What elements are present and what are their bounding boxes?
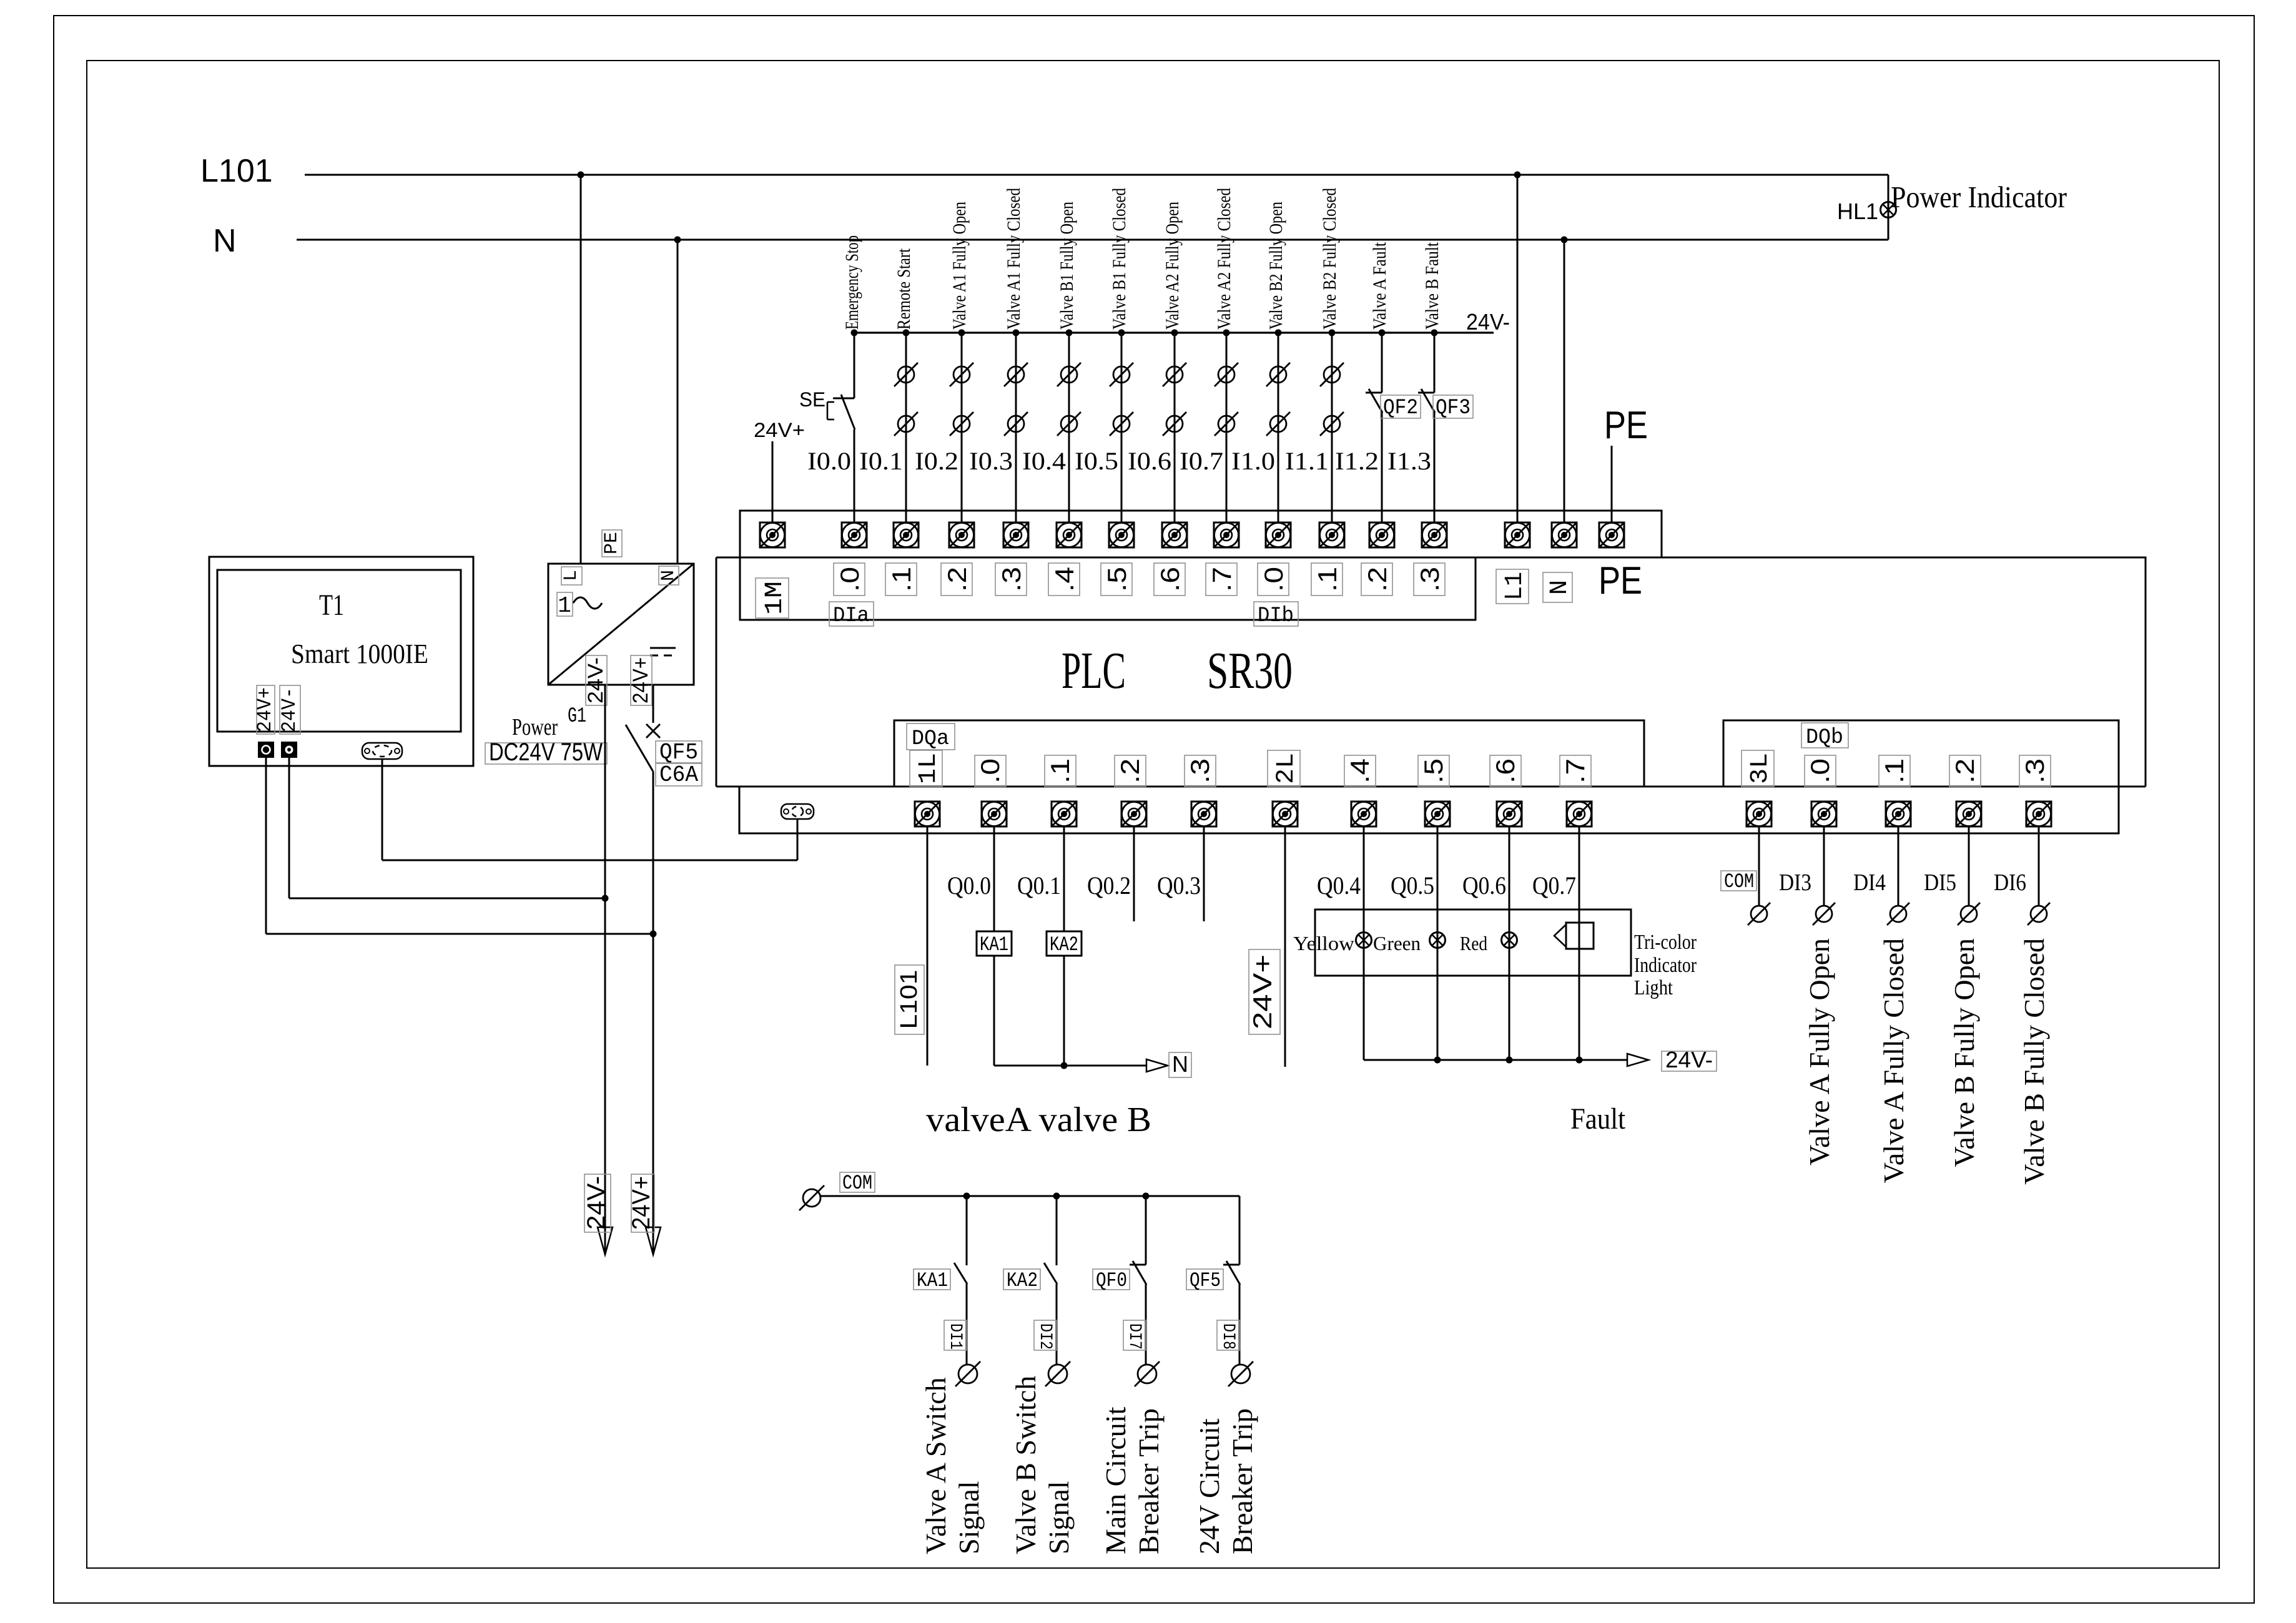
svg-text:I0.2: I0.2: [915, 447, 958, 475]
svg-text:Main Circuit: Main Circuit: [1100, 1406, 1131, 1554]
svg-text:DQb: DQb: [1806, 726, 1843, 750]
svg-text:PLC: PLC: [1062, 642, 1126, 700]
svg-text:SR30: SR30: [1207, 642, 1293, 700]
svg-text:SE: SE: [799, 388, 825, 411]
svg-text:Q0.7: Q0.7: [1532, 871, 1576, 900]
svg-text:PE: PE: [601, 532, 623, 554]
svg-text:Breaker Trip: Breaker Trip: [1226, 1408, 1258, 1554]
svg-text:Valve B2 Fully Open: Valve B2 Fully Open: [1266, 202, 1286, 330]
svg-text:HL1: HL1: [1837, 199, 1878, 224]
svg-text:Q0.2: Q0.2: [1087, 871, 1131, 900]
svg-text:N: N: [658, 570, 679, 581]
svg-text:Q0.3: Q0.3: [1157, 871, 1201, 900]
svg-text:Yellow: Yellow: [1293, 932, 1354, 954]
svg-text:Q0.1: Q0.1: [1017, 871, 1061, 900]
svg-text:Q0.6: Q0.6: [1462, 871, 1506, 900]
svg-text:Valve A2 Fully Closed: Valve A2 Fully Closed: [1214, 188, 1234, 330]
svg-text:QF5: QF5: [1190, 1269, 1221, 1292]
svg-text:.1: .1: [887, 567, 916, 592]
svg-text:Remote Start: Remote Start: [894, 248, 914, 330]
svg-text:24V-: 24V-: [278, 687, 301, 732]
svg-text:COM: COM: [842, 1172, 872, 1195]
svg-text:Breaker Trip: Breaker Trip: [1133, 1408, 1165, 1554]
svg-text:.5: .5: [1419, 758, 1448, 783]
svg-text:N: N: [1172, 1051, 1188, 1077]
svg-text:I0.1: I0.1: [859, 447, 903, 475]
svg-text:Valve A Fully Open: Valve A Fully Open: [1803, 938, 1835, 1165]
svg-text:Valve A1 Fully Open: Valve A1 Fully Open: [949, 202, 970, 330]
svg-text:I1.1: I1.1: [1285, 447, 1329, 475]
svg-text:Indicator: Indicator: [1634, 954, 1697, 977]
svg-text:QF5: QF5: [659, 740, 698, 765]
svg-text:L101: L101: [200, 153, 273, 189]
svg-text:Valve B1 Fully Closed: Valve B1 Fully Closed: [1109, 188, 1130, 330]
svg-text:24V-: 24V-: [583, 1176, 610, 1230]
svg-text:Emergency Stop: Emergency Stop: [842, 235, 862, 330]
svg-text:24V+: 24V+: [1248, 954, 1277, 1029]
svg-text:Q0.5: Q0.5: [1391, 871, 1434, 900]
svg-text:24V+: 24V+: [754, 419, 805, 441]
svg-text:.3: .3: [1185, 758, 1215, 783]
svg-text:KA2: KA2: [1050, 933, 1078, 956]
svg-text:L: L: [561, 570, 582, 581]
svg-text:QF2: QF2: [1383, 396, 1418, 420]
svg-text:DIb: DIb: [1258, 604, 1294, 628]
svg-text:.1: .1: [1045, 758, 1075, 783]
svg-text:.5: .5: [1102, 567, 1131, 592]
svg-text:Valve B2 Fully Closed: Valve B2 Fully Closed: [1319, 188, 1340, 330]
svg-text:DI7: DI7: [1125, 1323, 1144, 1350]
svg-text:24V-: 24V-: [1665, 1047, 1713, 1072]
svg-text:.6: .6: [1155, 567, 1185, 592]
svg-text:1: 1: [558, 593, 571, 619]
svg-text:.0: .0: [835, 567, 864, 592]
svg-text:QF3: QF3: [1436, 396, 1471, 420]
svg-text:KA1: KA1: [980, 933, 1008, 956]
svg-text:I0.3: I0.3: [969, 447, 1013, 475]
svg-text:1M: 1M: [761, 581, 789, 615]
svg-text:.6: .6: [1490, 758, 1520, 783]
svg-text:Light: Light: [1634, 976, 1673, 999]
svg-text:Red: Red: [1460, 932, 1487, 954]
svg-text:Q0.4: Q0.4: [1317, 871, 1361, 900]
svg-text:.2: .2: [1950, 758, 1979, 783]
svg-text:Smart 1000IE: Smart 1000IE: [291, 639, 428, 669]
svg-text:DI8: DI8: [1218, 1323, 1238, 1350]
svg-text:QF0: QF0: [1096, 1269, 1127, 1292]
svg-text:I0.7: I0.7: [1180, 447, 1223, 475]
svg-text:N: N: [213, 223, 237, 259]
svg-text:DI6: DI6: [1994, 870, 2026, 896]
svg-text:Valve B Fully Open: Valve B Fully Open: [1948, 938, 1980, 1167]
svg-text:.3: .3: [997, 567, 1026, 592]
svg-text:.4: .4: [1050, 567, 1079, 592]
svg-text:Signal: Signal: [953, 1481, 985, 1554]
svg-text:Valve A Fully Closed: Valve A Fully Closed: [1878, 938, 1909, 1183]
svg-text:3L: 3L: [1747, 753, 1775, 784]
svg-text:DIa: DIa: [833, 604, 869, 628]
svg-text:.2: .2: [1362, 567, 1392, 592]
svg-text:N: N: [1546, 580, 1574, 595]
svg-text:Fault: Fault: [1570, 1102, 1626, 1135]
svg-text:Tri-color: Tri-color: [1634, 931, 1697, 954]
svg-text:.0: .0: [975, 758, 1005, 783]
svg-text:.0: .0: [1805, 758, 1835, 783]
svg-text:24V-: 24V-: [1466, 309, 1510, 335]
svg-text:2L: 2L: [1273, 753, 1301, 784]
svg-text:Power Indicator: Power Indicator: [1891, 180, 2067, 214]
svg-text:I1.2: I1.2: [1335, 447, 1379, 475]
svg-text:24V+: 24V+: [254, 687, 277, 732]
svg-text:Q0.0: Q0.0: [947, 871, 991, 900]
svg-text:24V-: 24V-: [584, 657, 608, 704]
svg-text:DQa: DQa: [912, 727, 949, 751]
svg-text:.2: .2: [1115, 758, 1145, 783]
svg-text:C6A: C6A: [659, 762, 698, 788]
svg-text:I0.6: I0.6: [1128, 447, 1171, 475]
svg-text:Valve B1 Fully Open: Valve B1 Fully Open: [1057, 202, 1077, 330]
svg-text:I1.0: I1.0: [1231, 447, 1275, 475]
svg-text:24V+: 24V+: [629, 657, 653, 704]
svg-text:L101: L101: [896, 970, 922, 1029]
svg-text:Signal: Signal: [1043, 1481, 1075, 1554]
svg-text:COM: COM: [1724, 870, 1754, 893]
svg-text:L1: L1: [1501, 572, 1529, 601]
svg-text:.3: .3: [1415, 567, 1444, 592]
svg-text:valveA valve B: valveA valve B: [926, 1101, 1151, 1139]
svg-text:.3: .3: [2020, 758, 2049, 783]
svg-text:DI5: DI5: [1924, 870, 1956, 896]
svg-text:.1: .1: [1313, 567, 1342, 592]
svg-text:Valve B Switch: Valve B Switch: [1010, 1376, 1042, 1554]
svg-text:DI1: DI1: [945, 1323, 965, 1350]
svg-text:Power: Power: [512, 714, 558, 740]
svg-text:24V+: 24V+: [628, 1176, 655, 1230]
svg-text:.4: .4: [1345, 758, 1374, 783]
svg-text:1L: 1L: [915, 753, 943, 784]
svg-text:Valve A1 Fully Closed: Valve A1 Fully Closed: [1003, 188, 1024, 330]
svg-text:.7: .7: [1560, 758, 1590, 783]
svg-text:I0.0: I0.0: [807, 447, 851, 475]
svg-text:Valve A Fault: Valve A Fault: [1369, 242, 1390, 330]
svg-text:KA2: KA2: [1007, 1269, 1038, 1292]
svg-text:I1.3: I1.3: [1387, 447, 1431, 475]
svg-text:.2: .2: [942, 567, 972, 592]
svg-text:PE: PE: [1599, 559, 1642, 602]
svg-text:Valve B Fault: Valve B Fault: [1422, 242, 1442, 330]
svg-text:.7: .7: [1207, 567, 1236, 592]
svg-text:G1: G1: [568, 705, 586, 728]
svg-text:I0.4: I0.4: [1022, 447, 1066, 475]
svg-text:Valve A Switch: Valve A Switch: [920, 1377, 952, 1554]
svg-text:Green: Green: [1373, 932, 1421, 954]
svg-text:Valve A2 Fully Open: Valve A2 Fully Open: [1162, 202, 1183, 330]
svg-text:.0: .0: [1259, 567, 1288, 592]
svg-text:T1: T1: [319, 589, 344, 622]
svg-text:DC24V 75W: DC24V 75W: [489, 738, 603, 766]
svg-text:KA1: KA1: [917, 1269, 948, 1292]
svg-text:I0.5: I0.5: [1075, 447, 1118, 475]
svg-text:24V Circuit: 24V Circuit: [1193, 1418, 1225, 1554]
svg-text:DI4: DI4: [1853, 870, 1886, 896]
svg-text:Valve B Fully Closed: Valve B Fully Closed: [2018, 938, 2050, 1185]
svg-text:DI2: DI2: [1035, 1323, 1055, 1350]
svg-text:PE: PE: [1604, 404, 1648, 447]
svg-text:.1: .1: [1880, 758, 1909, 783]
svg-text:DI3: DI3: [1779, 870, 1811, 896]
